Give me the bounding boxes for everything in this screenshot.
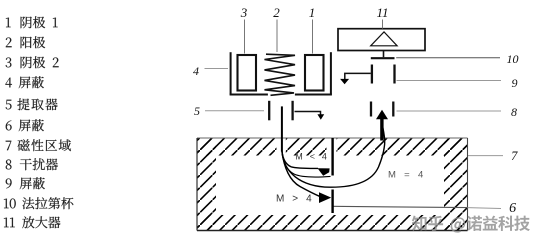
legend line 8: 8 干扰器 [6, 158, 58, 170]
legend line 5: 5 提取器 [6, 98, 58, 110]
leader line for label 9 [397, 80, 502, 82]
faraday cup top plate (label 10) [371, 57, 395, 59]
svg-text:10: 10 [507, 52, 519, 66]
leader line for label 3 [244, 20, 246, 54]
barrier upper segment [331, 138, 333, 176]
legend line 7: 7 磁性区域 [6, 139, 71, 151]
shield 6 horizontal line inside box, continuing as leader to label 6 [332, 206, 468, 207]
svg-text:1: 1 [309, 5, 316, 20]
leader line for label 1 [312, 20, 314, 54]
white gap in top band at barrier top [327, 137, 337, 156]
magnet box outline (magnetic region 7) [197, 138, 468, 231]
leader line for label 4 [205, 68, 229, 70]
leader line for label 8 [397, 110, 502, 112]
legend line 2: 2 阳极 [6, 36, 45, 48]
thick ion arrow into faraday cup [380, 119, 383, 141]
cathode 2 plate (label 3, rect) [238, 55, 257, 91]
svg-text:3: 3 [240, 5, 248, 20]
svg-text:4: 4 [193, 64, 199, 78]
trajectory middle (to barrier gap) [282, 152, 331, 178]
arrowhead M<4 [318, 168, 330, 176]
magnet box hatched right band [444, 138, 468, 231]
stem from amplifier to faraday cup plate [383, 51, 385, 58]
svg-text:2: 2 [273, 5, 280, 20]
legend line 9: 9 屏蔽 [6, 177, 45, 189]
magnet box hatched bottom band [197, 215, 468, 231]
faraday cup / shield side plates (label 9) [371, 65, 373, 84]
legend line 11: 11 放大器 [4, 216, 61, 228]
shield bracket 4 (ion source outer shield) [230, 52, 332, 94]
watermark 知乎 @诺益科技 [412, 216, 530, 233]
svg-text:9: 9 [512, 76, 518, 90]
trajectory M=4 (semicircle to exit) [282, 126, 385, 187]
svg-text:M < 4: M < 4 [295, 152, 329, 162]
extractor side line with down arrow [295, 112, 321, 115]
svg-text:8: 8 [511, 105, 517, 119]
leader line for label 5 [205, 110, 264, 112]
leader line for label 11 [382, 20, 384, 29]
leader line for label 7 [468, 155, 503, 157]
white gap in top band at ion beam entry [277, 137, 286, 156]
extractor plates (label 5) [268, 101, 270, 121]
leader line for label 2 [276, 20, 278, 53]
legend line 4: 4 屏蔽 [5, 76, 44, 88]
svg-text:6: 6 [509, 201, 516, 216]
arrowhead M>4 [319, 192, 331, 203]
svg-text:M > 4: M > 4 [276, 193, 314, 204]
amplifier triangle [371, 32, 397, 46]
svg-text:M = 4: M = 4 [388, 169, 426, 180]
trajectory M>4 [282, 152, 320, 197]
svg-text:11: 11 [376, 5, 388, 20]
svg-text:7: 7 [511, 149, 518, 163]
legend line 3: 3 阴极 2 [6, 56, 59, 68]
leader line for label 10 [396, 57, 500, 59]
trajectory M<4 [282, 152, 318, 169]
amplifier box (label 11) [338, 29, 425, 51]
ion beam entry line [281, 106, 283, 151]
legend line 1: 1 阴极 1 [6, 16, 58, 28]
cathode 1 plate (label 1, rect) [305, 55, 324, 91]
diagram numeral labels (italic serif) [193, 5, 519, 216]
legend line 10: 10 法拉第杯 [4, 197, 73, 209]
legend line 6: 6 屏蔽 [6, 119, 44, 131]
anode filament (label 2, zigzag) [265, 54, 296, 95]
svg-text:5: 5 [194, 104, 200, 118]
ground arm with down arrow (left of cup) [345, 73, 371, 79]
magnet box hatched top band [197, 138, 468, 156]
magnet box hatched left band [197, 138, 216, 231]
barrier lower segment [331, 190, 333, 214]
legend text block [4, 16, 73, 228]
interferer plates (label 8) [370, 102, 372, 117]
